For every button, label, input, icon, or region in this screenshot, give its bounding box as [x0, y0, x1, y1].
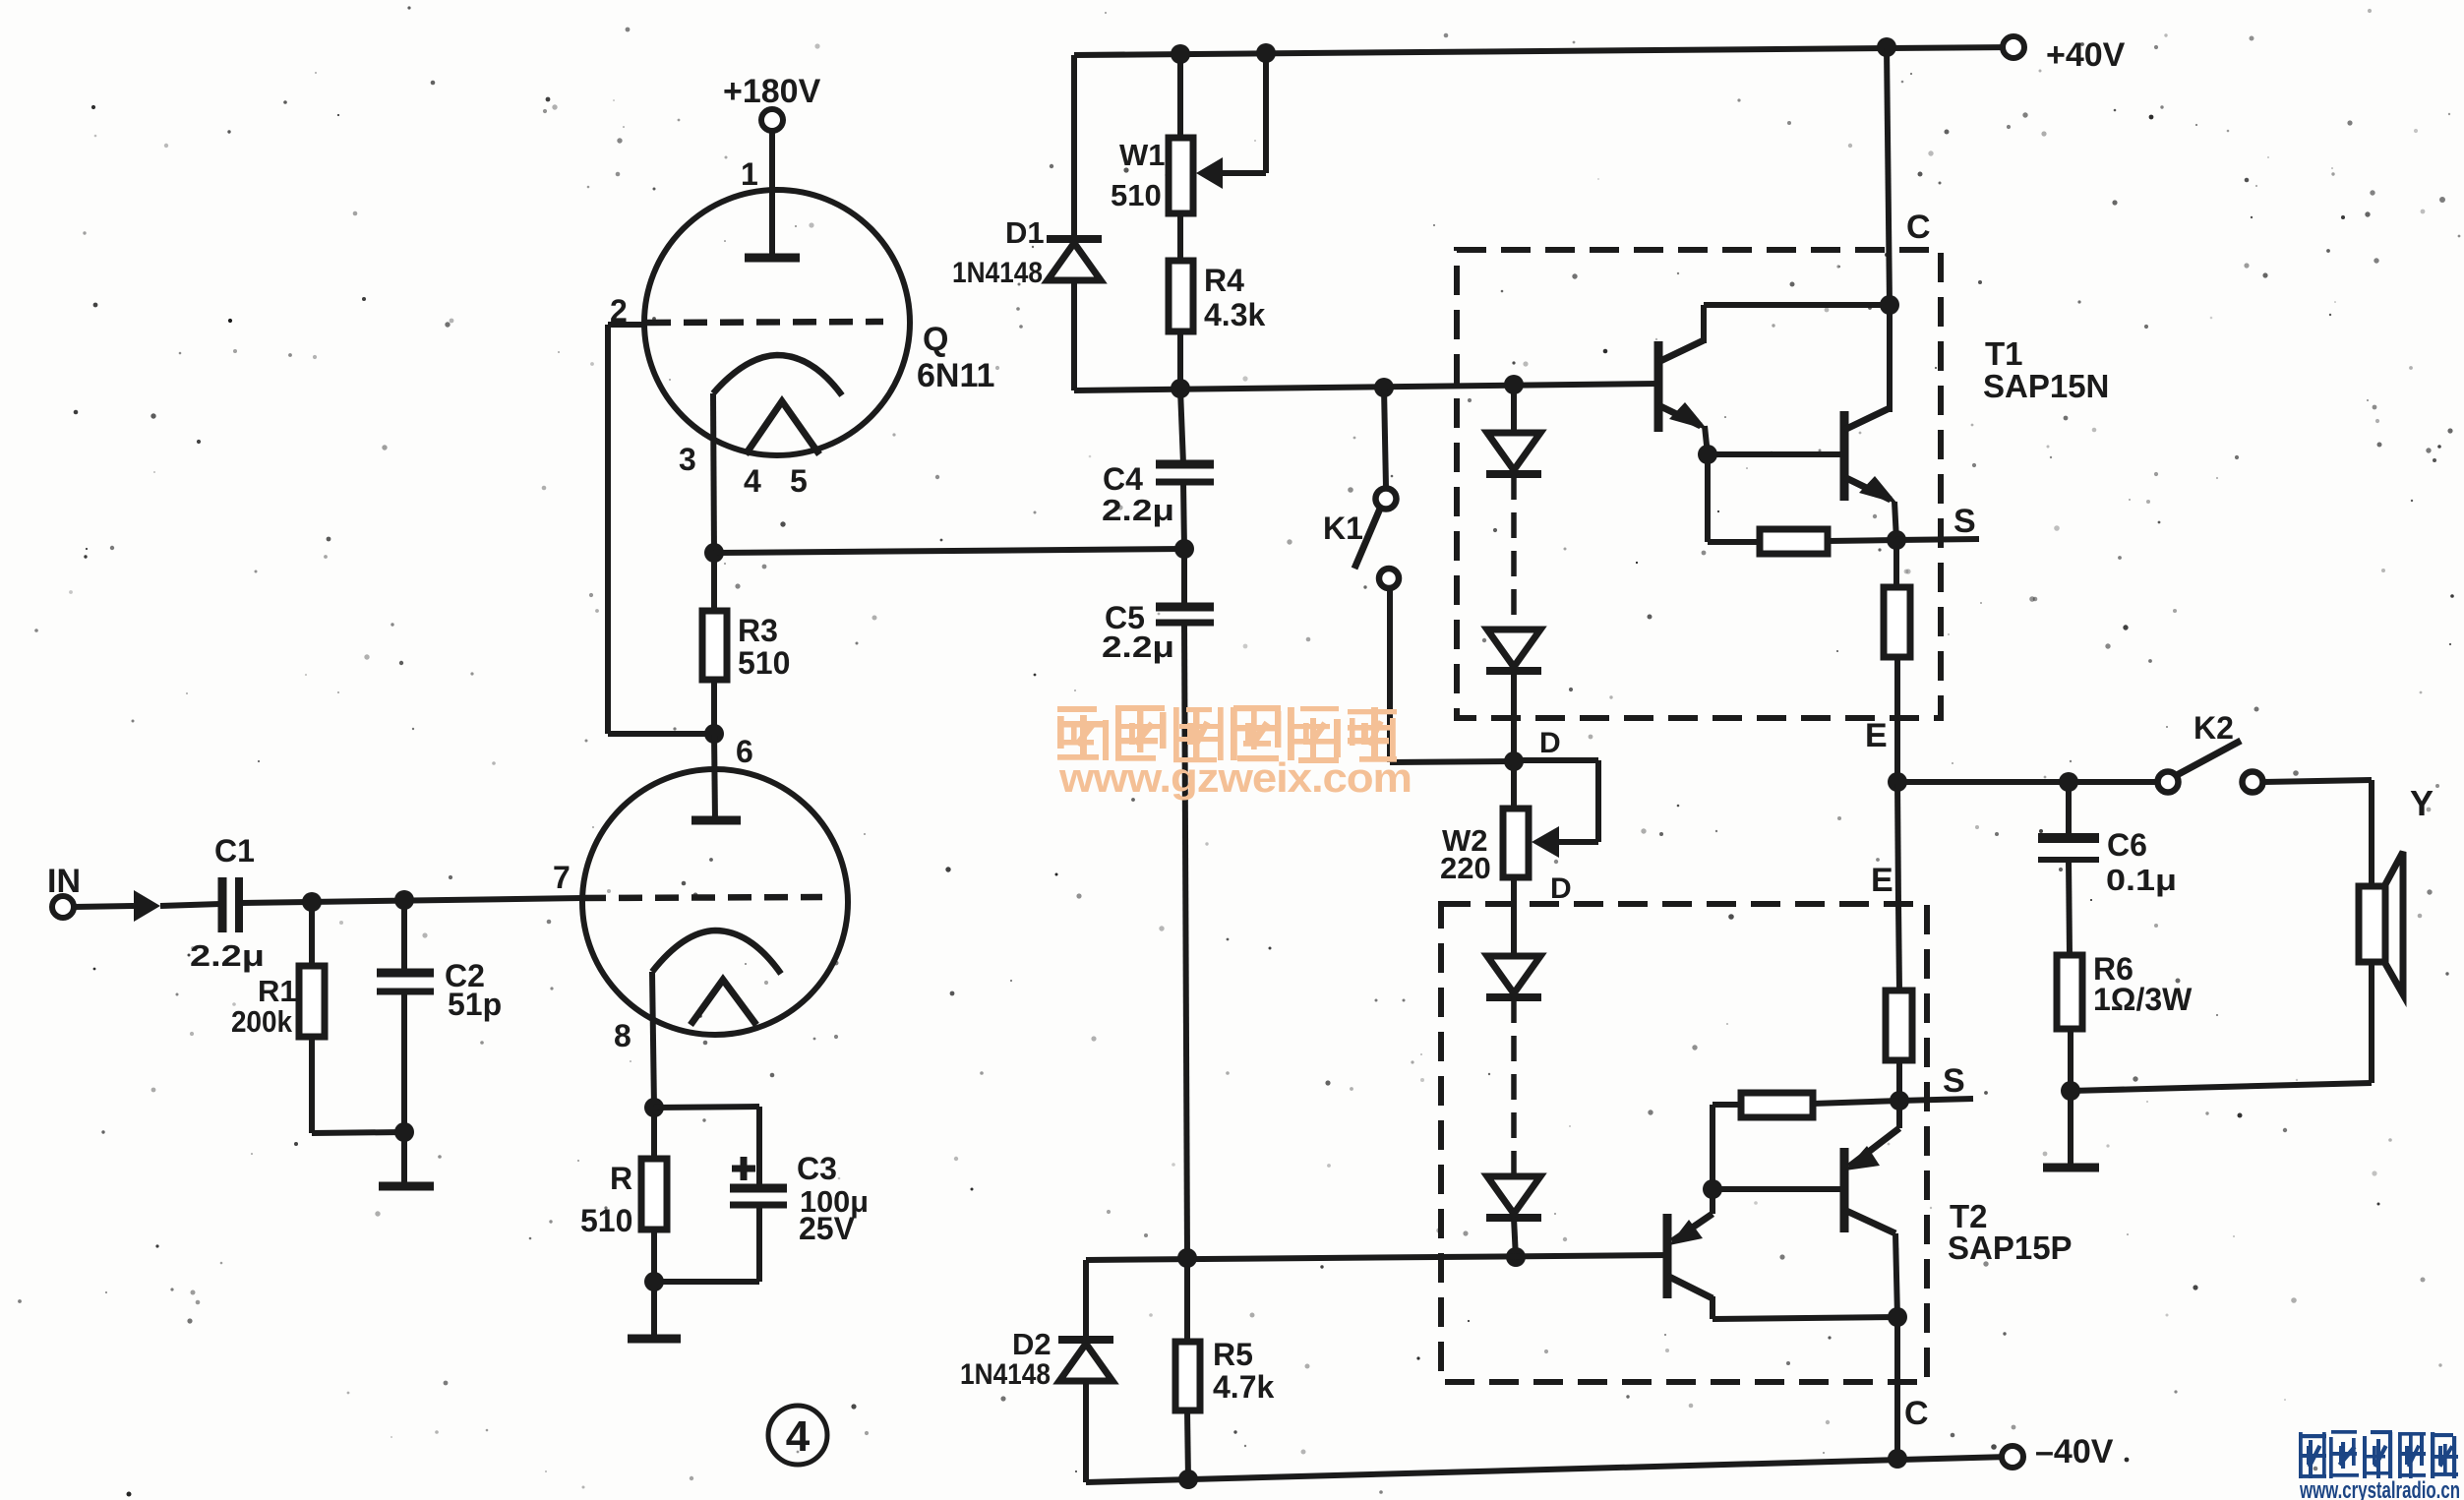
svg-text:R3: R3 [738, 613, 778, 648]
svg-text:K1: K1 [1323, 510, 1363, 546]
svg-text:K2: K2 [2194, 710, 2234, 746]
svg-text:www.crystalradio.cn: www.crystalradio.cn [2299, 1477, 2460, 1500]
svg-text:510: 510 [580, 1203, 632, 1238]
svg-text:2.2μ: 2.2μ [1102, 493, 1174, 527]
svg-text:1: 1 [741, 156, 758, 192]
svg-text:S: S [1943, 1062, 1965, 1100]
svg-text:W1: W1 [1119, 138, 1166, 172]
svg-text:R5: R5 [1213, 1337, 1253, 1372]
svg-text:E: E [1871, 862, 1893, 899]
svg-text:www.gzweix.com: www.gzweix.com [1058, 754, 1412, 801]
svg-text:C1: C1 [214, 833, 255, 869]
svg-text:510: 510 [1111, 178, 1162, 212]
svg-text:S: S [1953, 503, 1976, 540]
svg-text:3: 3 [679, 442, 696, 477]
svg-text:E: E [1865, 717, 1888, 754]
svg-text:6: 6 [736, 734, 753, 769]
svg-text:C3: C3 [797, 1151, 837, 1186]
svg-text:510: 510 [738, 645, 790, 681]
svg-text:1N4148: 1N4148 [960, 1358, 1051, 1391]
svg-text:200k: 200k [231, 1004, 293, 1039]
svg-text:+40V: +40V [2046, 36, 2126, 74]
svg-text:R: R [610, 1161, 632, 1196]
svg-text:C: C [1904, 1395, 1929, 1432]
svg-text:0.1μ: 0.1μ [2106, 863, 2177, 897]
svg-text:+180V: +180V [723, 73, 821, 110]
svg-text:2.2μ: 2.2μ [190, 938, 265, 973]
svg-text:D1: D1 [1005, 215, 1045, 250]
svg-text:5: 5 [790, 463, 808, 499]
svg-text:25V: 25V [799, 1211, 856, 1246]
svg-text:1Ω/3W: 1Ω/3W [2093, 982, 2193, 1017]
svg-text:220: 220 [1440, 851, 1491, 885]
svg-text:C6: C6 [2107, 827, 2147, 863]
svg-text:R1: R1 [258, 974, 297, 1008]
svg-text:D: D [1539, 727, 1561, 759]
svg-text:D: D [1550, 872, 1572, 905]
svg-text:8: 8 [614, 1018, 631, 1053]
svg-text:51p: 51p [448, 987, 502, 1022]
svg-text:7: 7 [553, 860, 571, 895]
svg-text:–40V: –40V [2035, 1433, 2114, 1470]
svg-text:2.2μ: 2.2μ [1102, 630, 1174, 664]
svg-text:SAP15P: SAP15P [1948, 1230, 2073, 1266]
svg-text:D2: D2 [1012, 1327, 1052, 1361]
svg-text:C: C [1906, 209, 1931, 246]
svg-text:SAP15N: SAP15N [1983, 368, 2109, 404]
svg-text:6N11: 6N11 [917, 357, 994, 394]
svg-text:C4: C4 [1103, 461, 1143, 497]
svg-text:T1: T1 [1985, 335, 2023, 372]
svg-text:Q: Q [923, 321, 948, 358]
svg-text:4.3k: 4.3k [1204, 297, 1265, 332]
svg-text:1N4148: 1N4148 [952, 257, 1043, 289]
svg-text:R4: R4 [1204, 263, 1244, 298]
svg-text:Y: Y [2410, 783, 2434, 823]
svg-text:4: 4 [786, 1412, 811, 1461]
svg-text:4: 4 [744, 463, 761, 499]
svg-text:4.7k: 4.7k [1213, 1369, 1274, 1405]
